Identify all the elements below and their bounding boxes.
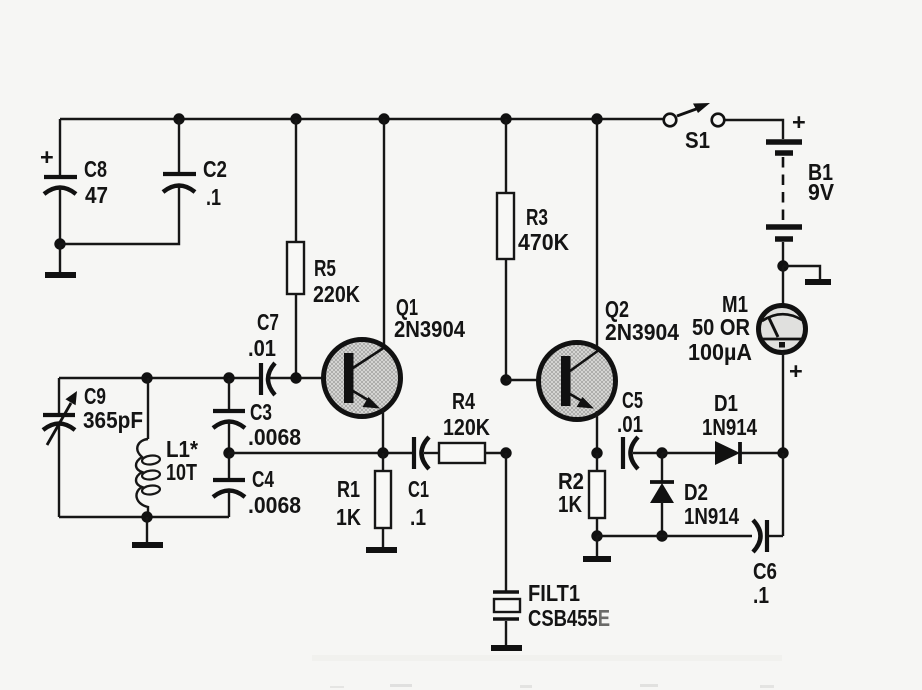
- diode D2: [650, 453, 739, 536]
- svg-text:C3: C3: [250, 399, 272, 425]
- node Q1 emitter junction: [377, 447, 388, 458]
- wire Q2 collector: [596, 119, 598, 348]
- capacitor C5: [617, 387, 662, 469]
- wire Q1 emitter: [382, 409, 384, 453]
- ground below R2: [583, 556, 611, 562]
- svg-text:1K: 1K: [558, 491, 582, 517]
- switch S1: [664, 103, 725, 153]
- capacitor C4: [213, 453, 301, 518]
- node tank bottom / L1: [141, 511, 152, 522]
- capacitor C1: [408, 437, 439, 530]
- wire C6 up to output node: [782, 453, 784, 536]
- node Q2 emitter junction: [591, 447, 602, 458]
- wire oscillator tank bottom: [59, 516, 229, 518]
- svg-text:.1: .1: [410, 504, 426, 530]
- node C8 bottom junction: [54, 238, 65, 249]
- transistor Q1: [324, 294, 466, 417]
- svg-text:470K: 470K: [518, 229, 569, 255]
- svg-text:120K: 120K: [443, 414, 490, 440]
- wire R2 to ground: [596, 536, 598, 556]
- node R4 right junction: [500, 447, 511, 458]
- svg-text:C4: C4: [252, 466, 274, 492]
- node battery negative junction: [777, 260, 788, 271]
- svg-text:CSB455E: CSB455E: [528, 605, 610, 631]
- svg-text:.01: .01: [617, 411, 643, 437]
- svg-text:R1: R1: [337, 476, 360, 502]
- svg-text:100µA: 100µA: [688, 339, 752, 365]
- ground below C8: [45, 272, 76, 278]
- svg-text:220K: 220K: [313, 281, 360, 307]
- ground chassis right: [805, 279, 831, 285]
- svg-text:.0068: .0068: [248, 492, 301, 518]
- node detector junction: [656, 447, 667, 458]
- diode D1: [662, 390, 783, 465]
- svg-text:R3: R3: [526, 204, 548, 230]
- svg-text:10T: 10T: [166, 459, 197, 485]
- wire battery junction to chassis ground: [783, 266, 820, 279]
- svg-text:.01: .01: [248, 335, 276, 361]
- wire Q2 base: [506, 379, 561, 381]
- capacitor C3: [213, 378, 301, 453]
- wire oscillator tank top: [59, 377, 259, 379]
- wire feedback tap: [229, 452, 412, 454]
- resistor R3: [497, 119, 569, 380]
- transistor Q2: [539, 296, 680, 420]
- svg-text:C2: C2: [203, 156, 227, 182]
- svg-text:2N3904: 2N3904: [394, 316, 465, 342]
- capacitor C8: [40, 119, 108, 244]
- node Q2 collector top: [591, 113, 602, 124]
- resistor R1: [336, 453, 391, 547]
- node Q1 base junction: [290, 372, 301, 383]
- capacitor C2: [163, 119, 227, 210]
- wire C8-C2 bottom link: [60, 186, 179, 244]
- svg-text:D2: D2: [684, 479, 708, 505]
- svg-text:1N914: 1N914: [702, 414, 757, 440]
- ground below FILT1: [491, 645, 522, 651]
- svg-text:C9: C9: [84, 383, 106, 409]
- svg-text:S1: S1: [685, 127, 710, 153]
- node C2 top: [173, 113, 184, 124]
- svg-text:+: +: [789, 358, 803, 384]
- resistor R4: [439, 388, 506, 463]
- node D1 output junction: [777, 447, 788, 458]
- node R5 top: [290, 113, 301, 124]
- svg-text:.1: .1: [753, 582, 769, 608]
- node tank top / L1: [141, 372, 152, 383]
- wire Q1 collector: [383, 119, 385, 347]
- svg-text:2N3904: 2N3904: [605, 319, 679, 345]
- wire tank to ground: [146, 517, 148, 542]
- svg-text:C5: C5: [622, 387, 643, 413]
- node D2 bottom junction: [656, 530, 667, 541]
- svg-text:C1: C1: [408, 476, 429, 502]
- resistor R2: [558, 453, 605, 536]
- node R2 bottom junction: [591, 530, 602, 541]
- svg-text:C6: C6: [753, 558, 777, 584]
- ceramic filter FILT1: [493, 453, 610, 645]
- wire meter to detector node: [782, 352, 784, 453]
- svg-text:+: +: [40, 144, 54, 170]
- svg-text:+: +: [792, 109, 806, 135]
- svg-text:365pF: 365pF: [83, 407, 143, 433]
- ground below L1: [132, 542, 163, 548]
- svg-text:47: 47: [85, 182, 108, 208]
- wire top supply rail: [60, 118, 663, 120]
- svg-text:R4: R4: [452, 388, 475, 414]
- svg-text:1K: 1K: [336, 504, 361, 530]
- capacitor C6: [753, 520, 783, 608]
- svg-text:C7: C7: [257, 309, 279, 335]
- svg-text:R5: R5: [314, 255, 336, 281]
- svg-text:.0068: .0068: [248, 424, 301, 450]
- battery B1: [766, 109, 834, 266]
- variable capacitor C9: [43, 378, 143, 517]
- svg-text:50 OR: 50 OR: [692, 314, 750, 340]
- svg-text:.1: .1: [206, 184, 221, 210]
- svg-text:C8: C8: [84, 156, 107, 182]
- wire Q2 emitter: [596, 411, 598, 453]
- wire detector bottom: [597, 535, 752, 537]
- meter M1: [688, 291, 806, 384]
- inductor L1: [136, 378, 199, 517]
- node Q2 base junction: [500, 374, 511, 385]
- svg-text:FILT1: FILT1: [528, 580, 580, 606]
- wire battery to meter: [782, 266, 784, 306]
- resistor R5: [287, 119, 360, 378]
- svg-text:9V: 9V: [808, 179, 834, 205]
- faint page artifacts bottom: [312, 655, 782, 661]
- wire switch to battery: [725, 120, 783, 139]
- ground below R1: [366, 547, 397, 553]
- node C3 top: [223, 372, 234, 383]
- svg-text:1N914: 1N914: [684, 503, 739, 529]
- wire C8 to ground: [59, 244, 61, 272]
- capacitor C7: [248, 309, 344, 395]
- node C3-C4 junction: [223, 447, 234, 458]
- node R3 top: [500, 113, 511, 124]
- node Q1 collector top: [378, 113, 389, 124]
- svg-text:D1: D1: [714, 390, 738, 416]
